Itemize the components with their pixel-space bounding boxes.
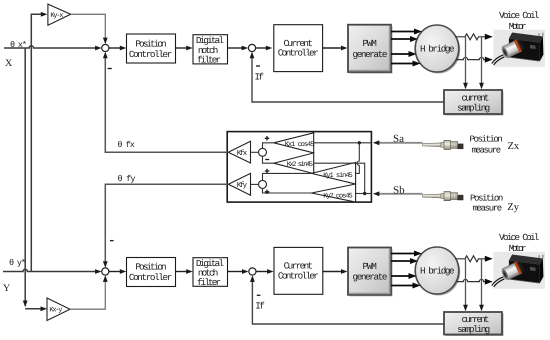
svg-text:H bridge: H bridge bbox=[420, 44, 455, 55]
svg-text:measure: measure bbox=[472, 146, 502, 156]
svg-text:Controller: Controller bbox=[278, 48, 319, 59]
svg-text:Kx1 cos45: Kx1 cos45 bbox=[285, 141, 315, 149]
svg-text:Motor: Motor bbox=[509, 243, 527, 254]
svg-text:Zx: Zx bbox=[508, 141, 520, 152]
svg-text:Position: Position bbox=[135, 262, 166, 273]
svg-text:Position: Position bbox=[135, 38, 166, 49]
svg-text:measure: measure bbox=[473, 203, 503, 213]
svg-text:Kfx: Kfx bbox=[237, 149, 248, 158]
svg-text:Voice Coil: Voice Coil bbox=[499, 10, 540, 21]
svg-text:θ fy: θ fy bbox=[118, 174, 136, 184]
svg-text:Sb: Sb bbox=[393, 184, 405, 196]
svg-text:filter: filter bbox=[197, 277, 221, 288]
svg-text:Position: Position bbox=[470, 194, 503, 204]
svg-text:θ fx: θ fx bbox=[117, 140, 134, 150]
svg-text:Controller: Controller bbox=[278, 270, 319, 281]
svg-text:Kx-y: Kx-y bbox=[49, 307, 62, 315]
svg-text:Kfy: Kfy bbox=[237, 181, 248, 190]
svg-text:Y: Y bbox=[3, 283, 10, 294]
svg-text:Ky-x: Ky-x bbox=[50, 12, 63, 20]
svg-text:sampling: sampling bbox=[457, 324, 490, 335]
svg-text:filter: filter bbox=[197, 54, 221, 65]
svg-text:generate: generate bbox=[353, 49, 388, 60]
svg-text:If: If bbox=[255, 71, 265, 82]
svg-text:Voice Coil: Voice Coil bbox=[499, 232, 540, 243]
svg-text:Sa: Sa bbox=[393, 133, 404, 145]
svg-text:Controller: Controller bbox=[129, 49, 172, 60]
svg-text:θ y*: θ y* bbox=[9, 258, 26, 268]
svg-text:Ky2 cos45: Ky2 cos45 bbox=[323, 192, 353, 200]
svg-text:PWM: PWM bbox=[363, 261, 377, 272]
svg-text:PWM: PWM bbox=[363, 38, 377, 49]
svg-text:X: X bbox=[5, 58, 13, 69]
svg-text:sampling: sampling bbox=[457, 103, 490, 114]
svg-text:Zy: Zy bbox=[507, 202, 519, 213]
svg-text:θ x*: θ x* bbox=[10, 40, 27, 50]
svg-text:H bridge: H bridge bbox=[420, 266, 455, 277]
svg-text:Motor: Motor bbox=[509, 21, 527, 32]
svg-text:Kx2 sin45: Kx2 sin45 bbox=[287, 160, 313, 169]
svg-text:Ky1 sin45: Ky1 sin45 bbox=[323, 171, 353, 180]
svg-text:Position: Position bbox=[470, 135, 503, 145]
svg-text:Controller: Controller bbox=[129, 272, 172, 283]
svg-text:generate: generate bbox=[353, 272, 388, 283]
svg-text:If: If bbox=[255, 301, 264, 312]
